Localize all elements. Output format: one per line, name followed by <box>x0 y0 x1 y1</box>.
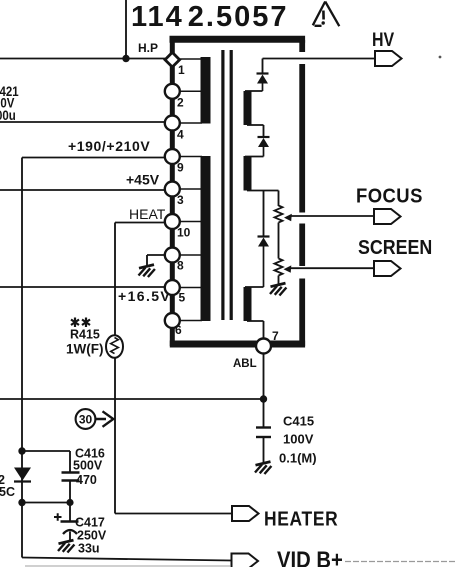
junction ABL <box>260 395 267 402</box>
signal 30 circle <box>76 409 96 429</box>
svg-text:+45V: +45V <box>126 172 160 188</box>
wire HV output <box>263 58 376 60</box>
svg-text:7: 7 <box>272 329 279 343</box>
diode D4 <box>14 468 31 482</box>
wire S2 bottom junction <box>247 190 279 192</box>
ground below C417 <box>58 540 74 552</box>
pin 9 <box>165 149 180 164</box>
transformer outline left tick to pin 1 <box>170 40 175 53</box>
svg-text:3: 3 <box>177 193 184 207</box>
pin number labels <box>175 63 279 343</box>
svg-text:H.P: H.P <box>138 41 158 55</box>
wire to pin 3 (+45V) <box>0 189 165 191</box>
svg-text:C415: C415 <box>283 414 314 429</box>
wire to pin 4 <box>0 121 165 123</box>
svg-text:HEAT: HEAT <box>129 206 166 222</box>
pin 1 diamond H.P <box>165 52 180 67</box>
pin 8 <box>165 248 180 263</box>
diode D3 <box>245 237 270 288</box>
pin 7 ABL <box>256 339 271 354</box>
primary winding bar lower <box>201 156 211 321</box>
wire diode D3 branch <box>263 191 265 237</box>
pin 4 <box>165 116 180 131</box>
wire pin 8 to ground <box>147 255 165 266</box>
diode D2 <box>245 137 270 157</box>
warning triangle <box>313 2 340 27</box>
secondary winding bar S3 <box>244 287 252 321</box>
svg-text:10: 10 <box>177 226 191 240</box>
pin 10 <box>165 214 180 229</box>
wire HEAT vertical lower <box>114 358 116 514</box>
svg-text:VID B+: VID B+ <box>277 546 343 567</box>
svg-text:0.1(M): 0.1(M) <box>279 451 317 466</box>
wire C416 top tap <box>22 451 70 473</box>
capacitor C417 polarized <box>61 503 79 542</box>
ground below C415 <box>255 462 271 474</box>
svg-text:1: 1 <box>178 63 185 77</box>
svg-text:5C: 5C <box>0 485 15 499</box>
asterisks ** <box>71 318 90 328</box>
plus sign C417 <box>54 513 62 520</box>
pin 5 <box>165 280 180 295</box>
wire C416 bottom tap <box>22 502 70 504</box>
transformer outline top border <box>170 36 306 43</box>
pin 6 <box>165 313 180 328</box>
pin 3 <box>165 182 180 197</box>
svg-text:FOCUS: FOCUS <box>356 185 423 208</box>
wire pin 7 down to C415 <box>263 352 265 427</box>
wire to pin 9 (+190/+210V) <box>22 157 165 159</box>
wire left bus vertical <box>21 158 23 558</box>
svg-text:ABL: ABL <box>233 358 257 370</box>
connector HEATER <box>232 506 259 521</box>
wire S3 bottom to pin 7 <box>247 321 264 340</box>
wire H.P horizontal <box>0 58 165 60</box>
connector HV <box>375 51 402 66</box>
svg-text:C417: C417 <box>75 516 105 530</box>
connector FOCUS <box>374 209 401 224</box>
wire VID B+ bottom <box>22 558 232 561</box>
primary winding bar upper <box>201 57 211 124</box>
svg-text:30: 30 <box>79 412 93 426</box>
wire drop to H.P node <box>125 0 127 59</box>
wire to pin 5 (+16.5V) <box>0 286 165 288</box>
transformer outline right border segments <box>299 40 305 346</box>
svg-text:00u: 00u <box>0 107 16 123</box>
junction C416/C417 <box>66 499 73 506</box>
wire to pin 10 (HEAT) <box>115 222 165 224</box>
capacitor C416 <box>62 473 80 503</box>
wire HEATER horizontal <box>115 513 232 515</box>
ground at pin 8 <box>139 265 155 277</box>
signal 30 arrow <box>96 411 114 427</box>
wire ABL horizontal <box>0 398 264 400</box>
transformer core line right <box>230 50 233 320</box>
svg-text:2: 2 <box>177 96 184 110</box>
secondary winding bar S2 <box>244 156 252 191</box>
svg-text:250V: 250V <box>77 529 107 543</box>
svg-text:100V: 100V <box>283 432 314 447</box>
transformer core line left <box>221 50 224 320</box>
svg-text:+190/+210V: +190/+210V <box>68 138 150 154</box>
junction diode top <box>18 447 25 454</box>
resistor R415 <box>106 335 123 358</box>
pin 2 <box>165 84 180 99</box>
transformer outline bottom border <box>170 341 305 348</box>
pin stubs to primary winding <box>172 59 202 321</box>
svg-text:500V: 500V <box>73 459 103 473</box>
svg-text:HEATER: HEATER <box>264 508 338 531</box>
transformer outline left border <box>170 53 175 346</box>
ground below screen pot <box>270 283 286 295</box>
wire HV to diode D1 <box>262 59 264 74</box>
capacitor C415 <box>256 428 271 464</box>
screen wiper arrow <box>284 265 375 272</box>
svg-text:R415: R415 <box>70 328 100 342</box>
svg-text:8: 8 <box>177 259 184 273</box>
svg-text:+16.5V: +16.5V <box>118 288 171 304</box>
connector SCREEN <box>374 261 401 276</box>
focus wiper arrow <box>284 214 374 221</box>
title 1142.5057 <box>131 1 289 33</box>
svg-text:33u: 33u <box>78 542 100 556</box>
secondary winding bar S1 <box>244 91 252 125</box>
svg-text:470: 470 <box>76 473 97 487</box>
junction diode bottom <box>18 499 25 506</box>
wire S1 bottom to diode D2 <box>247 125 264 137</box>
svg-text:4: 4 <box>177 128 184 142</box>
connector VID B+ <box>232 554 259 567</box>
screen potentiometer <box>275 259 283 285</box>
svg-text:HV: HV <box>372 29 394 51</box>
svg-text:1W(F): 1W(F) <box>66 342 104 357</box>
svg-text:5: 5 <box>179 291 186 305</box>
svg-text:SCREEN: SCREEN <box>358 237 432 259</box>
junction H.P <box>122 55 129 62</box>
faint scan line bottom right <box>345 561 457 563</box>
wire HEAT vertical upper <box>114 223 116 336</box>
svg-text:6: 6 <box>175 323 182 337</box>
faint scan line bottom left <box>25 565 230 567</box>
svg-text:1142.5057: 1142.5057 <box>131 1 289 33</box>
focus potentiometer <box>275 191 283 259</box>
speck top right <box>439 56 442 59</box>
diode D1 <box>245 74 269 92</box>
svg-text:9: 9 <box>177 161 184 175</box>
